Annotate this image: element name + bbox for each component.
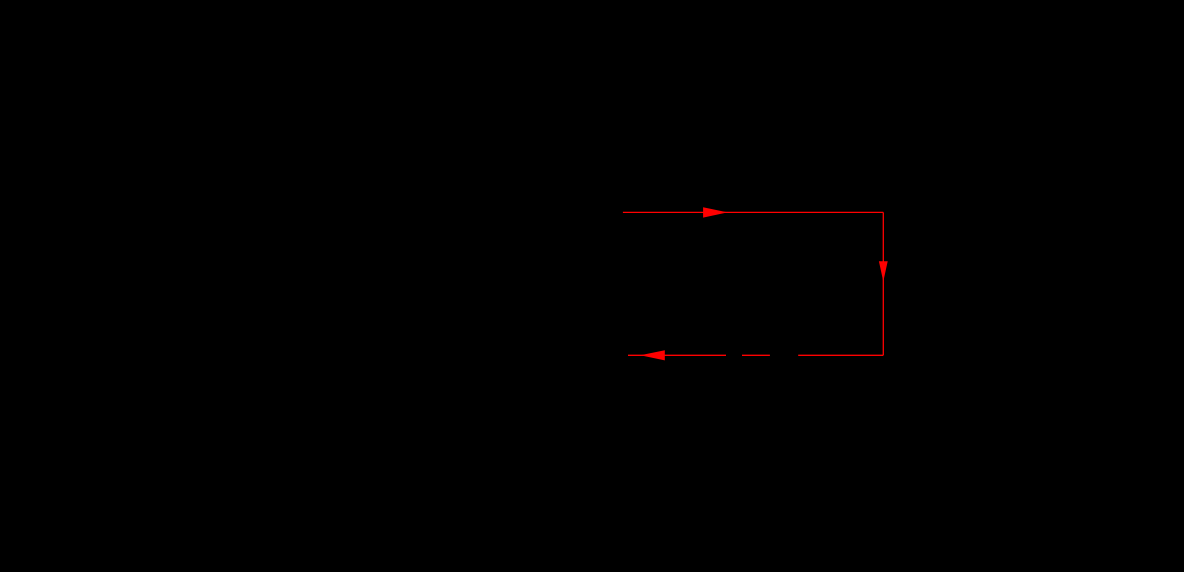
arrowhead current direction I on bottom wire (pointing left) bbox=[640, 350, 665, 360]
arrowhead current direction I on right wire (pointing down) bbox=[879, 261, 888, 281]
wire bottom conductor, segment between battery cells bbox=[742, 354, 770, 356]
wire right conductor (current path, top to bottom) bbox=[882, 212, 884, 355]
arrowhead current direction I on top wire (pointing right) bbox=[703, 207, 727, 217]
wire bottom conductor, segment left of battery bbox=[628, 354, 726, 356]
wire top conductor (current path, left to right) bbox=[623, 211, 883, 213]
wire bottom conductor, segment right of battery bbox=[798, 354, 883, 356]
